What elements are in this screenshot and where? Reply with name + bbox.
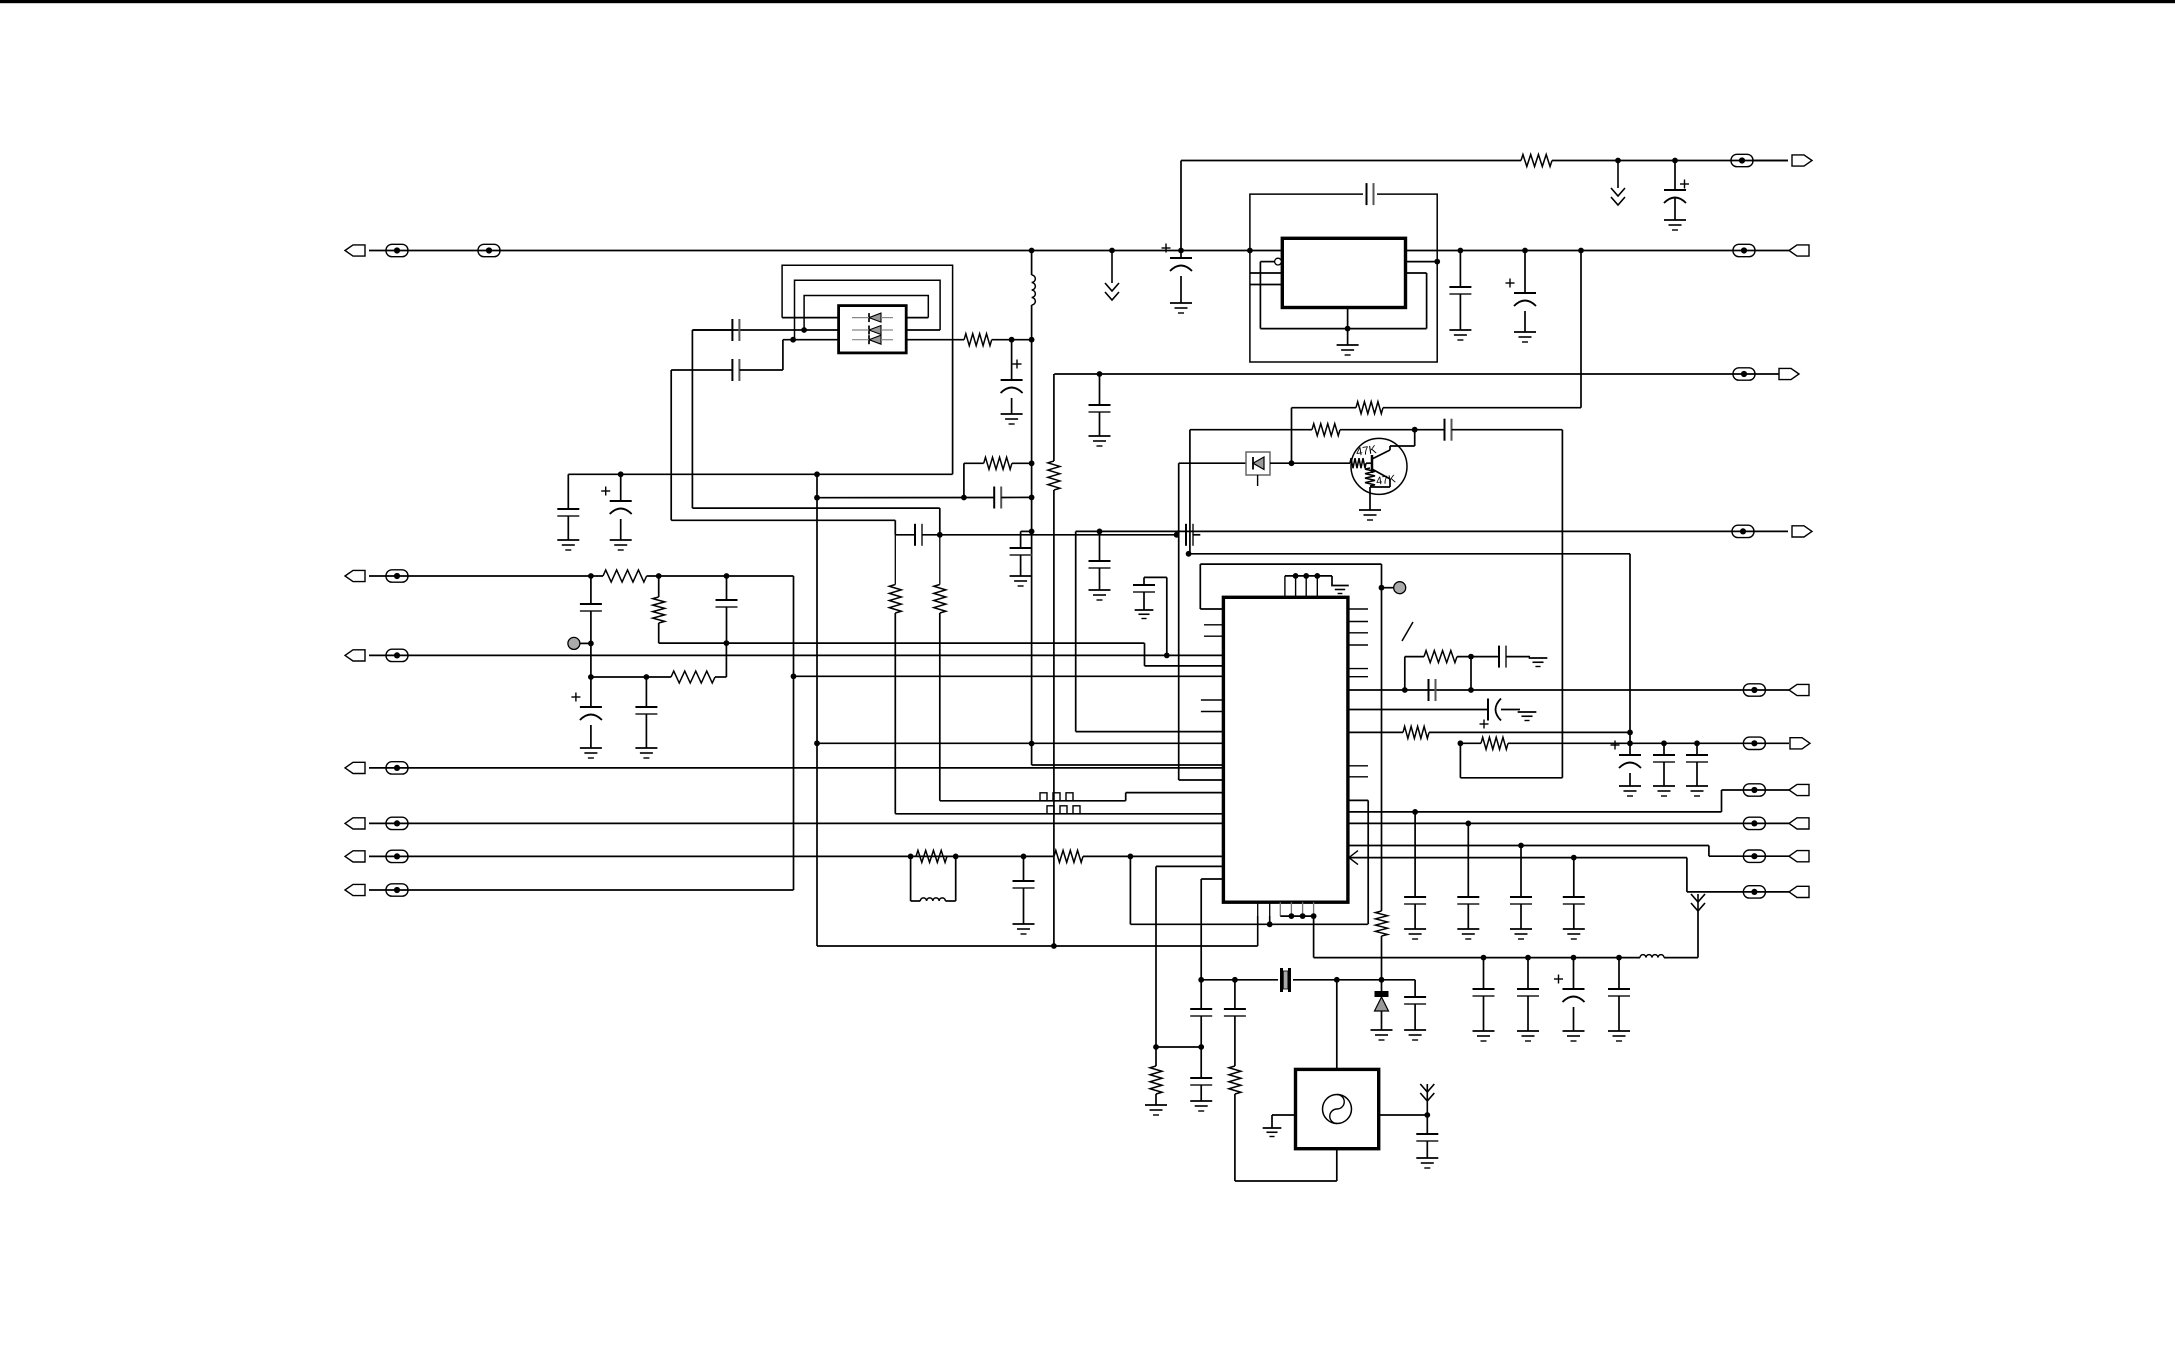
- connector oval bus374: [1733, 368, 1755, 380]
- wire x1404 drop: [1404, 657, 1406, 690]
- wire inner loop bottom: [1260, 328, 1426, 330]
- wire C30 gnd lead: [1618, 996, 1620, 1031]
- wire cap line y330 left: [692, 329, 732, 331]
- wire C35 gnd lead: [1467, 904, 1469, 929]
- ground at C6: [610, 540, 632, 550]
- regulator IC U2 box: [1282, 238, 1405, 307]
- wire R10 gnd lead: [1155, 1094, 1157, 1105]
- resistor R21: [1048, 461, 1060, 490]
- inductor L3: [1640, 955, 1664, 958]
- wire x895 drop: [894, 520, 896, 535]
- wire top bus drop at x1181: [1180, 161, 1182, 251]
- wire y463 line: [1179, 462, 1246, 464]
- wire x817 column: [816, 474, 818, 946]
- capacitor C4 y370: [732, 359, 739, 381]
- inductor L1: [1032, 275, 1036, 305]
- wire U1 bot pin1 gray: [1257, 902, 1259, 916]
- ground at C25: [1089, 436, 1111, 446]
- node y980 x1382: [1379, 977, 1385, 983]
- wire C36 lead: [1520, 846, 1522, 898]
- wire row856: [369, 855, 1054, 857]
- node y957 b: [1525, 955, 1531, 961]
- wire emitter bottom: [1370, 486, 1390, 488]
- wire sq line A: [940, 800, 1126, 802]
- ground at D2: [1371, 1030, 1393, 1040]
- wire U1 loop left: [1199, 564, 1201, 609]
- wire x1313 drop: [1313, 916, 1315, 958]
- resistor R19 47K: [1365, 468, 1375, 486]
- node U1 top rail a: [1293, 573, 1299, 579]
- wire C28 lead: [1527, 958, 1529, 989]
- transistor Q1 collector: [1372, 450, 1390, 459]
- wire step down 892: [1686, 858, 1688, 892]
- wire x1201 col: [1200, 879, 1202, 1009]
- wire row856 b: [1083, 855, 1223, 857]
- wire U2 right pin y261: [1406, 261, 1438, 263]
- wire loop1 left ext: [782, 340, 784, 370]
- wire C36 gnd lead: [1520, 904, 1522, 929]
- wire U1 loop right col: [1381, 564, 1383, 911]
- ground at C40: [1653, 786, 1675, 796]
- stub U1 pin b: [1204, 635, 1223, 637]
- squarewave glyph B: [1043, 806, 1084, 814]
- wire cap line y370b: [739, 369, 783, 371]
- wire x895 col: [894, 535, 896, 585]
- node row576 x590: [588, 573, 594, 579]
- wire inner loop left: [1259, 262, 1261, 329]
- wire C28 gnd lead: [1527, 996, 1529, 1031]
- wire U1 bot pin4: [1290, 902, 1292, 916]
- ground at C30: [1608, 1031, 1630, 1041]
- wire C26 gnd lead: [1426, 1141, 1428, 1158]
- wire x1234 col c: [1234, 1094, 1236, 1181]
- ground at Q1: [1359, 510, 1381, 520]
- node y812 x1415: [1412, 809, 1418, 815]
- node D1 L3 loop2: [790, 337, 796, 343]
- wire x1178 col: [1178, 463, 1180, 780]
- wire main bus seg1: [369, 250, 1789, 252]
- wire C20 to ground: [1674, 198, 1676, 220]
- node x590 y643: [588, 641, 594, 647]
- wire C10 lead: [1099, 531, 1101, 561]
- connector oval y690: [1743, 684, 1765, 696]
- capacitor C22 on loop top: [1367, 183, 1374, 205]
- wire x590 col c: [590, 677, 592, 707]
- wire C6 lead: [620, 474, 622, 501]
- node row576 x726: [724, 573, 730, 579]
- wire C27 gnd lead: [1483, 996, 1485, 1031]
- wire C34 lead: [1414, 812, 1416, 897]
- ground at oscillator: [1263, 1128, 1282, 1137]
- wire U1 top rail: [1285, 575, 1332, 577]
- wire y429 line: [1190, 429, 1312, 431]
- node x1032 y743: [1029, 741, 1035, 747]
- stub U1 pin d: [1201, 711, 1224, 713]
- connector arrow row767: [345, 762, 365, 773]
- node row856 x1130: [1128, 854, 1134, 860]
- wire emitter gnd lead: [1369, 487, 1371, 510]
- wire D1 lead R3: [906, 339, 964, 341]
- wire U1 loop top: [1200, 563, 1381, 565]
- node y643 x726: [724, 640, 730, 646]
- wire C14 gnd lead: [1143, 592, 1145, 610]
- wire row576 b: [647, 575, 794, 577]
- wire D1 lead L2: [692, 329, 838, 331]
- diode D3 symbol: [1253, 457, 1264, 470]
- wire y1047 link: [1156, 1046, 1201, 1048]
- wire loop1 right drop: [952, 340, 954, 475]
- ground at C12: [580, 748, 602, 758]
- wire x726 cap col b: [726, 607, 728, 643]
- wire top bus right seg: [1552, 160, 1788, 162]
- node main bus x1112: [1109, 248, 1115, 254]
- node TP2 junction: [1379, 585, 1385, 591]
- node y957 a: [1481, 955, 1487, 961]
- wire x692 drop: [691, 330, 693, 508]
- wire C30 lead: [1618, 958, 1620, 989]
- node row856 x910: [908, 854, 914, 860]
- node y535 x1176: [1174, 532, 1180, 538]
- ground at R10: [1145, 1105, 1167, 1115]
- wire pin866 lead: [1156, 865, 1223, 867]
- node row576 x658: [656, 573, 662, 579]
- connector oval row655: [386, 649, 408, 661]
- wire R7 right lead: [715, 676, 726, 678]
- squarewave glyph A: [1036, 793, 1077, 801]
- capacitor C20 electrolytic: [1664, 180, 1689, 204]
- wire y508 line: [692, 507, 939, 509]
- wire x793 column: [793, 576, 795, 890]
- wire y535 line a: [895, 534, 915, 536]
- capacitor C38: [1445, 419, 1452, 441]
- connector oval main bus b: [478, 244, 500, 256]
- node y980 x1234: [1232, 977, 1238, 983]
- ground small y656: [1529, 658, 1548, 667]
- wire y677 line: [591, 676, 671, 678]
- wire U1 top pin 1: [1284, 576, 1286, 597]
- capacitor C11: [580, 604, 602, 611]
- wire y656 row c: [1506, 656, 1530, 658]
- node U1 top rail b: [1303, 573, 1309, 579]
- node y743 x1460: [1458, 740, 1464, 746]
- resistor R11: [1229, 1066, 1241, 1094]
- wire y709 row: [1348, 709, 1488, 711]
- wire L1 bottom lead: [1031, 305, 1033, 340]
- node y690 x1404: [1402, 687, 1408, 693]
- IC U1 box: [1223, 597, 1348, 902]
- connector oval top right: [1731, 154, 1753, 166]
- node main bus x1180: [1178, 248, 1184, 254]
- wire Q1 coll to node: [1390, 445, 1415, 447]
- ground at C36: [1510, 929, 1532, 939]
- ground at C29: [1563, 1031, 1585, 1041]
- wire R2 loop vert: [963, 463, 965, 497]
- node y553 x1188: [1186, 551, 1192, 557]
- node x590 y677: [588, 674, 594, 680]
- wire sq line B: [895, 813, 1223, 815]
- wire R6 top lead: [658, 576, 660, 597]
- capacitor C36: [1510, 897, 1532, 904]
- wire row823 left: [369, 822, 1223, 824]
- wire C37 gnd lead: [1573, 904, 1575, 929]
- node y957 d: [1616, 955, 1622, 961]
- node y980 x1336: [1334, 977, 1340, 983]
- wire U1 bot pin3: [1279, 902, 1281, 916]
- wire D3 stem: [1257, 475, 1259, 486]
- capacitor C31: [1499, 646, 1506, 668]
- node row856 x955: [953, 854, 959, 860]
- capacitor C10: [1089, 561, 1111, 568]
- stub U1 rpin 6: [1348, 676, 1368, 678]
- wire C21 lead: [1180, 251, 1182, 259]
- capacitor C21 electrolytic: [1162, 244, 1193, 272]
- node y535 x940: [937, 532, 943, 538]
- wire D1 lead L3: [783, 339, 839, 341]
- wire x1234 col a: [1234, 980, 1236, 1009]
- node y957 c: [1571, 955, 1577, 961]
- capacitor C8: [915, 524, 922, 546]
- capacitor C5: [557, 509, 579, 516]
- resistor R4: [934, 585, 946, 614]
- wire pin feed y731: [1076, 731, 1224, 733]
- stub U1 rpin 5: [1348, 668, 1368, 670]
- wire y732 row b: [1429, 731, 1630, 733]
- connector oval main bus right: [1733, 244, 1755, 256]
- resistor R15: [1481, 737, 1508, 749]
- capacitor C13: [635, 707, 657, 714]
- node y497 x817: [814, 495, 820, 501]
- wire step up 790: [1721, 790, 1723, 812]
- node x1032 y497: [1029, 495, 1035, 501]
- wire U1 top pin 2: [1295, 576, 1297, 597]
- wire C34 gnd lead: [1414, 904, 1416, 929]
- wire x726 riser: [725, 643, 727, 677]
- resistor R17: [1312, 424, 1340, 436]
- top border bar: [0, 0, 2175, 3]
- capacitor C7: [994, 487, 1001, 509]
- wire x590 col d: [590, 725, 592, 748]
- diode array loop3: [804, 296, 928, 331]
- node main bus x1030: [1029, 248, 1035, 254]
- capacitor C32: [1429, 679, 1436, 701]
- wire x1381 col b: [1381, 936, 1383, 993]
- diode array D1 box: [839, 306, 907, 353]
- connector arrow y892: [1789, 886, 1809, 897]
- capacitor C33 electrolytic h: [1480, 699, 1502, 729]
- node x793 y676: [791, 673, 797, 679]
- connector oval y856r: [1743, 850, 1765, 862]
- wire C23 lower lead: [1459, 294, 1461, 330]
- connector arrow out y160: [1792, 155, 1812, 166]
- node U2 gnd on loop: [1345, 326, 1351, 332]
- ground at C41: [1686, 786, 1708, 796]
- connector arrow out bus531: [1792, 526, 1812, 537]
- capacitor C28: [1517, 989, 1539, 996]
- node main bus x1581: [1578, 248, 1584, 254]
- wire RL right: [955, 856, 957, 901]
- wire C20 lead: [1674, 161, 1676, 191]
- wire U2 gnd stem: [1347, 308, 1349, 346]
- ground at C39: [1619, 786, 1641, 796]
- connector oval row767: [386, 762, 408, 774]
- stub U1 rpin 1: [1348, 608, 1368, 610]
- wire x1234 col b: [1234, 1016, 1236, 1066]
- wire row576: [369, 575, 603, 577]
- ground at C34: [1404, 929, 1426, 939]
- wire x590 col a: [590, 576, 592, 604]
- wire x940 col mid: [939, 535, 941, 585]
- stub U1 pin c: [1201, 699, 1224, 701]
- wire step down 856: [1708, 846, 1710, 857]
- wire osc right col: [1426, 1115, 1428, 1134]
- wire x1166 riser: [1166, 577, 1168, 655]
- resistor R5: [603, 570, 647, 582]
- regulator outer loop box: [1250, 194, 1437, 362]
- wire Q1 collector up: [1389, 446, 1391, 450]
- capacitor C19: [1224, 1009, 1246, 1016]
- connector oval main bus a: [386, 244, 408, 256]
- node row655 x1166: [1164, 653, 1170, 659]
- node y857 x1573: [1571, 855, 1577, 861]
- wire C25 to gnd: [1099, 412, 1101, 436]
- connector oval y743: [1743, 737, 1765, 749]
- stub U1 rpin 4: [1348, 644, 1368, 646]
- wire x1562 col: [1561, 430, 1563, 778]
- wire C17 gnd lead: [1200, 1085, 1202, 1101]
- wire y497 line b: [1001, 496, 1031, 498]
- ground at C10: [1089, 590, 1111, 600]
- wire y946 line: [817, 945, 1258, 947]
- diode array loop1: [782, 265, 953, 340]
- wire x1054 col a: [1053, 374, 1055, 461]
- capacitor C29 electrolytic: [1554, 975, 1585, 1003]
- ground at C27: [1473, 1031, 1495, 1041]
- wire y823 row right: [1348, 822, 1789, 824]
- wire y407 line: [1292, 407, 1357, 409]
- pin circle U2 active-low: [1275, 258, 1282, 265]
- wire bus531: [1076, 530, 1788, 532]
- node top bus / C20: [1672, 158, 1678, 164]
- wire TP1 lead: [580, 642, 591, 644]
- wire x671 drop: [670, 370, 672, 520]
- capacitor C23: [1449, 287, 1471, 294]
- capacitor C40: [1653, 755, 1675, 762]
- wire x1471 drop: [1470, 657, 1472, 690]
- wire x590 col b: [590, 611, 592, 677]
- wire U1 bot pin2: [1269, 916, 1271, 924]
- capacitor C37: [1563, 897, 1585, 904]
- wire y474 line: [568, 473, 952, 475]
- node osc right: [1424, 1112, 1430, 1118]
- ground at C23: [1449, 330, 1471, 340]
- node y743 x1630: [1627, 740, 1633, 746]
- connector arrow y690: [1789, 684, 1809, 695]
- wire C2 to gnd: [1011, 398, 1013, 414]
- zener diode D2: [1375, 991, 1389, 1011]
- wire C15 gnd lead: [1023, 888, 1025, 924]
- ground at C24: [1514, 332, 1536, 342]
- wire osc left gnd lead: [1271, 1115, 1273, 1128]
- oscillator symbol: [1323, 1095, 1352, 1124]
- wire y709 row b: [1501, 709, 1520, 711]
- wire C40 lead: [1663, 743, 1665, 755]
- stub U1 rpin 3: [1348, 632, 1368, 634]
- wire U1 bot pin1: [1257, 916, 1259, 946]
- wire bus374: [1054, 373, 1779, 375]
- resistor R10: [1150, 1066, 1162, 1094]
- node x817 y743: [814, 740, 820, 746]
- wire y429 line b: [1340, 429, 1445, 431]
- wire C18 gnd lead: [1414, 1004, 1416, 1030]
- wire RL bot a: [911, 900, 921, 902]
- page connector chevron right: [1691, 894, 1705, 911]
- wire C18 lead: [1414, 980, 1416, 997]
- wire x1201 col b: [1200, 1016, 1202, 1078]
- wire C13 lead: [645, 677, 647, 707]
- wire x1189 col: [1189, 430, 1191, 554]
- capacitor C27: [1473, 989, 1495, 996]
- connector oval row890: [386, 884, 408, 896]
- capacitor C2 electrolytic: [1001, 360, 1023, 394]
- node R1 out: [1009, 337, 1015, 343]
- wire x1130 drop: [1129, 856, 1131, 924]
- stub U1 rpin low a: [1348, 765, 1368, 767]
- transistor Q1 emitter: [1372, 469, 1390, 479]
- wire y690 row: [1348, 689, 1789, 691]
- ground at C14: [1135, 610, 1154, 619]
- wire cap line y370: [671, 369, 732, 371]
- capacitor C42: [716, 600, 738, 607]
- wire y497 line: [817, 497, 994, 499]
- wire x1075 column: [1075, 531, 1077, 731]
- wire C21 to ground: [1180, 276, 1182, 303]
- connector arrow row890: [345, 884, 365, 895]
- wire R1 to node: [992, 339, 1032, 341]
- connector arrow row856: [345, 851, 365, 862]
- resistor R8: [1054, 850, 1083, 862]
- wire U1 rail gnd lead: [1331, 576, 1333, 586]
- diode D1-1 symbol: [852, 313, 893, 322]
- connector oval y823: [1743, 817, 1765, 829]
- wire C23 lead: [1459, 251, 1461, 288]
- wire y924 line: [1130, 923, 1367, 925]
- wire C6 gnd lead: [620, 519, 622, 540]
- node y845 x1521: [1518, 843, 1524, 849]
- capacitor C35: [1457, 897, 1479, 904]
- wire inner loop right: [1426, 273, 1428, 329]
- wire y1181 line: [1235, 1180, 1337, 1182]
- capacitor C39 electrolytic: [1611, 741, 1642, 769]
- stub U1 pin a: [1204, 624, 1223, 626]
- wire coll node col: [1414, 430, 1416, 446]
- connector oval bus531: [1732, 525, 1754, 537]
- node U2 right y261: [1434, 259, 1440, 265]
- connector arrow out main bus: [1789, 245, 1809, 256]
- capacitor C3: [1010, 548, 1032, 555]
- connector arrow y856r: [1789, 851, 1809, 862]
- capacitor C1 on lead L2: [732, 319, 739, 341]
- resistor R18 47K base: [1350, 458, 1366, 468]
- connector arrow row655: [345, 650, 365, 661]
- wire pin row y800: [1348, 799, 1368, 801]
- resistor R7: [671, 671, 715, 683]
- wire U2 left lead y284: [1250, 284, 1282, 286]
- resistor R6: [653, 597, 665, 623]
- connector arrow y790: [1789, 784, 1809, 795]
- wire x1178 to pin: [1179, 779, 1224, 781]
- wire C40 gnd lead: [1663, 762, 1665, 786]
- node main bus x1460: [1458, 248, 1464, 254]
